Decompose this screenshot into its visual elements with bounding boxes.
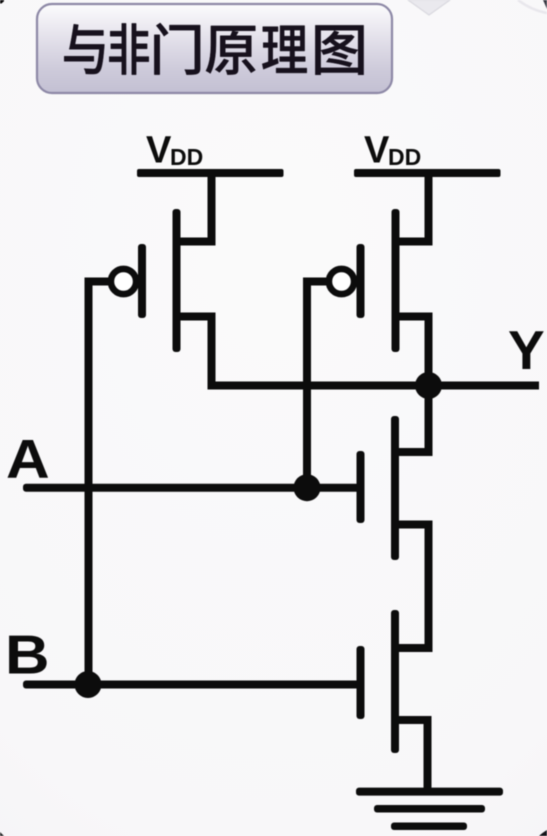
transistor Q2 channel bar [392,209,400,352]
svg-text:V: V [146,130,172,172]
wire Q2 drain down to output bus [425,313,433,390]
transistor Q1 (PMOS left): source lead [177,238,216,246]
svg-text:DD: DD [170,144,203,170]
transistor Q2 (PMOS right): source lead [396,238,433,246]
svg-text:A: A [6,429,50,490]
svg-text:B: B [5,625,49,686]
node Y junction dot [415,372,442,399]
transistor Q3 (NMOS top): drain lead [395,448,433,456]
transistor Q3 gate bar [357,451,365,523]
label A [6,429,50,490]
svg-text:Y: Y [508,319,545,381]
ground bar 2 [374,805,485,813]
wire input A [23,484,361,492]
transistor Q4 channel bar [391,610,399,753]
title box [37,4,392,93]
transistor Q4 (NMOS bottom): drain lead [395,644,433,652]
wire Q2 gate stub [303,278,331,286]
label Y [508,319,545,381]
svg-text:DD: DD [388,144,421,170]
wire Q3 source to Q4 drain [425,521,433,653]
transistor Q1 gate bar [138,244,146,318]
label B [5,625,49,686]
power rail VDD left [137,169,284,177]
corner artifact bottom-right [539,830,547,836]
transistor Q2 gate bar [357,244,365,318]
wire B branch vertical (Q1 gate to node B) [85,278,93,689]
power rail VDD right [354,169,501,177]
title text 与非门原理图 [64,23,363,75]
wire Q1 gate stub [85,278,113,286]
wire VDD rail to Q2 source [425,172,433,246]
transistor Q1 drain lead [177,313,216,321]
wire Y to Q3 drain [425,386,433,457]
ground bar 1 [356,788,503,796]
corner artifact top-left [0,0,4,4]
svg-text:V: V [364,130,390,172]
transistor Q3 channel bar [391,416,399,560]
faint arc artifact [518,0,547,13]
corner artifact top-right [543,0,547,9]
ground bar 3 [391,823,467,831]
wire A branch vertical (Q2 gate to node A) [303,278,311,492]
wire Q4 source to ground [424,716,432,796]
transistor Q1 gate bubble [111,269,136,294]
wire Q1 drain down to output bus [208,313,216,390]
wire VDD rail to Q1 source [208,172,216,246]
label VDD right [364,130,421,172]
transistor Q2 drain lead [396,313,433,321]
transistor Q2 gate bubble [329,269,354,294]
transistor Q4 gate bar [357,646,365,719]
transistor Q1 channel bar [173,209,181,352]
node B junction dot [75,671,102,698]
corner artifact bottom-left [0,832,4,836]
transistor Q3 source lead [395,521,433,529]
node A junction dot [294,474,321,501]
wire output bus to Y [208,382,540,390]
faint chevron artifact [408,0,450,15]
wire input B [23,681,361,689]
transistor Q4 source lead [395,716,432,724]
label VDD left [146,130,203,172]
